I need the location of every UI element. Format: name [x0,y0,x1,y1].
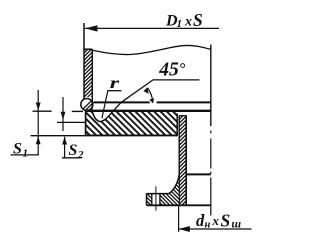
svg-text:45°: 45° [158,59,186,80]
svg-text:x: x [184,15,192,30]
svg-text:н: н [205,220,211,231]
svg-text:1: 1 [177,18,183,30]
svg-text:1: 1 [23,148,29,160]
svg-text:r: r [110,75,121,92]
svg-text:S: S [69,142,78,159]
svg-text:ш: ш [232,219,242,231]
svg-text:x: x [212,213,220,228]
svg-text:2: 2 [77,149,84,161]
svg-text:S: S [13,141,22,158]
svg-text:S: S [221,210,231,230]
svg-text:S: S [193,10,203,30]
